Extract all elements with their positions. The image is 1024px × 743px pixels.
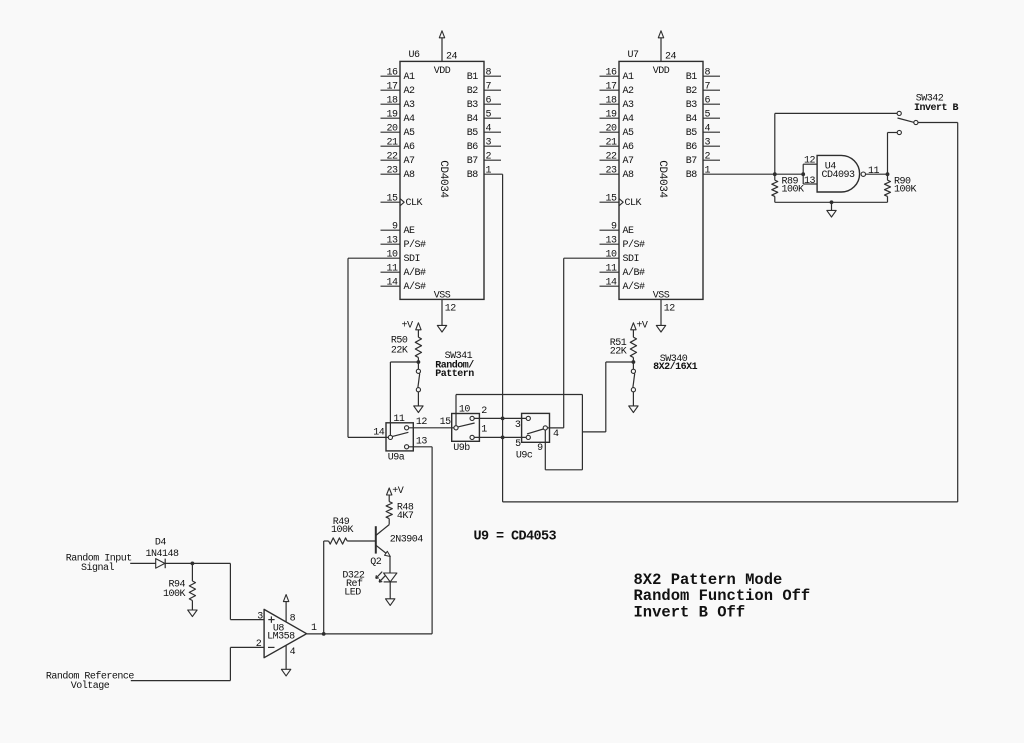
svg-text:B6: B6 <box>467 142 479 153</box>
svg-text:Invert B: Invert B <box>914 103 959 114</box>
U6 pin 4 B5 stub <box>484 131 501 133</box>
svg-text:2: 2 <box>256 639 262 650</box>
wire U9c pin4 up to U7 SDI <box>547 258 599 428</box>
svg-text:5: 5 <box>486 110 492 121</box>
resistor R48 4K7 <box>386 502 392 519</box>
svg-text:U9 = CD4053: U9 = CD4053 <box>474 530 557 545</box>
svg-text:B3: B3 <box>686 100 698 111</box>
U9b common contact pin15 <box>454 426 458 430</box>
svg-text:14: 14 <box>605 278 617 289</box>
svg-text:P/S#: P/S# <box>623 239 646 251</box>
svg-text:CD4034: CD4034 <box>437 160 449 198</box>
U6 pin 8 B1 stub <box>484 75 501 77</box>
resistor R94 100K <box>189 563 195 610</box>
wire U9a pin12 to U9b pin15 <box>409 427 454 429</box>
U6 pin 7 B2 stub <box>484 89 501 91</box>
svg-text:P/S#: P/S# <box>404 239 427 251</box>
U7 pin 16 A1 stub <box>600 75 620 77</box>
svg-text:SDI: SDI <box>623 254 640 265</box>
SW342 common contact <box>914 120 918 124</box>
U7 pin 21 A6 stub <box>600 145 620 147</box>
svg-text:B8: B8 <box>467 170 479 181</box>
wire random input to D4 <box>130 562 156 564</box>
wire U9a pin13 to opamp output riser <box>409 447 432 634</box>
svg-text:3: 3 <box>486 138 492 149</box>
U6 pin 17 A2 stub <box>381 89 401 91</box>
wire U6 SDI pin10 to U9a pin14 <box>348 258 388 437</box>
svg-text:A/S#: A/S# <box>404 281 427 293</box>
svg-text:Q2: Q2 <box>370 557 382 568</box>
svg-text:A1: A1 <box>404 72 416 83</box>
svg-text:4: 4 <box>705 124 711 135</box>
U8 pin 8 +V arrow <box>283 595 288 622</box>
U7 pin 20 A5 stub <box>600 131 620 133</box>
svg-text:B2: B2 <box>686 86 698 97</box>
U7 pin 2 B7 stub <box>703 159 720 161</box>
svg-text:24: 24 <box>446 52 458 63</box>
U7 pin 6 B3 stub <box>703 103 720 105</box>
svg-text:6: 6 <box>705 96 711 107</box>
U6 VSS pin 12 down arrow <box>437 299 446 332</box>
resistor R49 100K <box>324 538 348 544</box>
svg-text:Signal: Signal <box>81 562 115 574</box>
svg-text:10: 10 <box>605 250 617 261</box>
node junction D4 / R94 <box>191 562 195 566</box>
R51 labels <box>610 338 627 358</box>
+V arrow above R48 <box>387 488 392 502</box>
svg-text:B5: B5 <box>686 128 698 139</box>
U6 pin 10 SDI stub <box>381 257 401 259</box>
svg-text:2N3904: 2N3904 <box>390 535 424 546</box>
U8 output pin 1 wire <box>307 633 433 635</box>
svg-text:Random Function Off: Random Function Off <box>634 587 811 605</box>
svg-text:A8: A8 <box>623 170 635 181</box>
wire R49 to Q2 base <box>347 540 376 542</box>
U7 pin 10 SDI stub <box>600 257 620 259</box>
R50 labels <box>391 336 408 357</box>
svg-text:+V: +V <box>392 486 404 497</box>
wire SW340 to down arrow <box>632 392 634 406</box>
wire U4-input junction up to SW342 throw <box>775 113 897 174</box>
svg-text:23: 23 <box>605 166 617 177</box>
svg-text:14: 14 <box>386 278 398 289</box>
U7 CLK wedge <box>619 199 623 206</box>
svg-text:CLK: CLK <box>625 198 642 209</box>
wire SW342 common to right rail down to U9b net <box>503 123 958 502</box>
svg-text:20: 20 <box>386 124 398 135</box>
analog switch U9b body <box>452 414 480 442</box>
IC U6 CD4034 body <box>400 61 484 299</box>
U6 CLK wedge <box>400 199 404 206</box>
U7 VSS pin 12 down arrow <box>656 299 665 332</box>
svg-text:7: 7 <box>486 82 492 93</box>
svg-text:6: 6 <box>486 96 492 107</box>
U8 pin 4 down arrow <box>281 646 290 676</box>
svg-text:13: 13 <box>605 236 617 247</box>
U9a throw contact pin13 <box>405 445 409 449</box>
svg-text:13: 13 <box>804 176 816 187</box>
down arrow below SW341 <box>414 406 423 413</box>
svg-text:Voltage: Voltage <box>71 680 110 692</box>
U6 pin 2 B7 stub <box>484 159 501 161</box>
U9c throw contact pin5 <box>526 435 530 439</box>
svg-text:15: 15 <box>386 194 398 205</box>
U6 pin 3 B6 stub <box>484 145 501 147</box>
svg-text:A4: A4 <box>404 114 416 125</box>
svg-text:17: 17 <box>605 82 617 93</box>
svg-text:3: 3 <box>257 611 263 622</box>
svg-text:100K: 100K <box>782 185 805 196</box>
transistor Q2 2N3904 base bar <box>375 526 377 553</box>
svg-text:22K: 22K <box>391 345 408 356</box>
U7 pin 22 A7 stub <box>600 159 620 161</box>
svg-text:2: 2 <box>481 406 487 417</box>
U6 pin 9 AE stub <box>381 229 401 231</box>
svg-text:B5: B5 <box>467 128 479 139</box>
U7 pin 18 A3 stub <box>600 103 620 105</box>
IC U7 CD4034 body <box>619 61 703 299</box>
U9b throw contact pin1 <box>470 435 474 439</box>
analog switch U9c body <box>522 413 550 442</box>
U7 pin 17 A2 stub <box>600 89 620 91</box>
wire SW342 bottom throw to U4 output node <box>888 133 898 175</box>
svg-text:AE: AE <box>404 226 416 237</box>
svg-text:10: 10 <box>459 405 471 416</box>
U7 pin 5 B4 stub <box>703 117 720 119</box>
U6 pin 20 A5 stub <box>381 131 401 133</box>
svg-text:18: 18 <box>386 96 398 107</box>
svg-text:23: 23 <box>386 166 398 177</box>
SW340 top contact <box>631 369 635 373</box>
svg-text:B7: B7 <box>686 156 698 167</box>
op-amp - input marker <box>268 646 275 648</box>
svg-text:SDI: SDI <box>404 254 421 265</box>
U6 pin 22 A7 stub <box>381 159 401 161</box>
svg-text:A6: A6 <box>404 142 416 153</box>
R94 labels <box>163 579 186 599</box>
LED D322 <box>384 573 397 582</box>
svg-text:1: 1 <box>486 166 492 177</box>
svg-text:22: 22 <box>386 152 398 163</box>
wire R89/R90 ground rail <box>775 201 888 203</box>
svg-text:3: 3 <box>515 420 521 431</box>
wire random reference to opamp - input <box>131 647 264 680</box>
svg-text:9: 9 <box>392 222 398 233</box>
wire U7 B8 pin1 to U4 inputs <box>703 173 775 175</box>
svg-text:A8: A8 <box>404 170 416 181</box>
+V arrow above R51 <box>631 323 636 337</box>
svg-text:CD4093: CD4093 <box>821 170 855 181</box>
svg-text:10: 10 <box>386 250 398 261</box>
wire junction to U9a pin 11 <box>390 362 418 435</box>
U4 pin 13 stub <box>803 183 817 185</box>
svg-text:16: 16 <box>386 68 398 79</box>
U9b lever <box>458 423 475 427</box>
wire junction to U4 input tie <box>775 173 803 175</box>
U6 pin 23 A8 stub <box>381 173 401 175</box>
U6 pin 11 A/B# stub <box>381 271 401 273</box>
SW342 bottom throw contact <box>897 130 901 134</box>
svg-text:A/S#: A/S# <box>623 281 646 293</box>
svg-text:VDD: VDD <box>653 66 670 77</box>
svg-text:VDD: VDD <box>434 66 451 77</box>
wire U6 B8 pin1 down to U9b throws / SW342 return <box>484 174 503 502</box>
SW342 top throw contact <box>897 111 901 115</box>
wire top rail U9b pin10 to U9c pin9 loop <box>456 395 582 470</box>
wire SW341 to down arrow <box>417 392 419 406</box>
svg-text:U6: U6 <box>409 50 421 61</box>
wire D322 to ground <box>389 582 391 599</box>
node junction ground rail <box>830 200 834 204</box>
nand gate U4 CD4093 body <box>817 155 859 192</box>
resistor R50 22K <box>415 337 421 357</box>
R90 value labels <box>894 177 917 196</box>
+V arrow above R50 <box>416 323 421 337</box>
svg-text:8: 8 <box>705 68 711 79</box>
U9a common contact pin14 <box>388 435 392 439</box>
node junction B8 net / U9b pin1 <box>501 436 505 440</box>
analog switch U9a body <box>386 423 413 451</box>
U6 pin 19 A4 stub <box>381 117 401 119</box>
svg-text:A/B#: A/B# <box>623 267 646 279</box>
svg-text:4K7: 4K7 <box>397 511 414 522</box>
svg-text:16: 16 <box>605 68 617 79</box>
node junction R89/U7.B8 <box>773 172 777 176</box>
SW341 bottom contact <box>416 388 420 392</box>
svg-text:B7: B7 <box>467 156 479 167</box>
svg-text:A5: A5 <box>404 128 416 139</box>
svg-text:100K: 100K <box>163 589 186 600</box>
svg-text:Invert B Off: Invert B Off <box>634 604 746 622</box>
R89 value labels <box>782 177 805 196</box>
svg-text:A4: A4 <box>623 114 635 125</box>
wire Q2 emitter to D322 <box>389 556 391 573</box>
svg-text:B2: B2 <box>467 86 479 97</box>
svg-text:B4: B4 <box>686 114 698 125</box>
svg-text:12: 12 <box>664 304 676 315</box>
svg-text:12: 12 <box>804 155 816 166</box>
resistor R51 22K <box>630 337 636 357</box>
svg-text:8: 8 <box>290 613 296 624</box>
node junction U8 output / R49 <box>322 632 326 636</box>
svg-text:1: 1 <box>311 623 317 634</box>
svg-text:15: 15 <box>605 194 617 205</box>
SW342 lever <box>898 118 914 122</box>
U6 pin 13 P/S# stub <box>381 243 401 245</box>
U7 pin 13 P/S# stub <box>600 243 620 245</box>
U7 pin 19 A4 stub <box>600 117 620 119</box>
svg-text:21: 21 <box>386 138 398 149</box>
svg-text:A7: A7 <box>623 156 635 167</box>
node junction U4 output / R90 <box>886 172 890 176</box>
svg-text:B4: B4 <box>467 114 479 125</box>
svg-text:14: 14 <box>373 427 385 438</box>
SW341 lever <box>418 374 420 388</box>
SW340 lever <box>633 374 635 388</box>
svg-text:18: 18 <box>605 96 617 107</box>
wire junction left and down to U9b/U9c rail <box>582 362 633 432</box>
wire R50 to SW341 junction <box>417 358 419 370</box>
svg-text:A2: A2 <box>623 86 635 97</box>
svg-text:13: 13 <box>416 436 428 447</box>
U9c throw contact pin3 <box>526 416 530 420</box>
ground symbol under R94 <box>188 610 197 617</box>
U6 pin 21 A6 stub <box>381 145 401 147</box>
svg-text:24: 24 <box>665 52 677 63</box>
svg-text:B1: B1 <box>467 72 479 83</box>
svg-text:9: 9 <box>611 222 617 233</box>
svg-text:1N4148: 1N4148 <box>146 549 180 560</box>
svg-text:100K: 100K <box>894 185 917 196</box>
svg-text:A3: A3 <box>623 100 635 111</box>
svg-text:5: 5 <box>515 439 521 450</box>
svg-text:19: 19 <box>605 110 617 121</box>
U9c lever <box>527 429 543 434</box>
svg-text:7: 7 <box>705 82 711 93</box>
svg-text:12: 12 <box>416 417 428 428</box>
svg-text:19: 19 <box>386 110 398 121</box>
U7 pin 15 CLK stub <box>600 201 620 203</box>
U7 pin 14 A/S# stub <box>600 285 620 287</box>
svg-text:A2: A2 <box>404 86 416 97</box>
svg-text:22K: 22K <box>610 346 627 357</box>
svg-text:+V: +V <box>636 320 648 331</box>
U9c common contact pin4 <box>543 426 547 430</box>
SW341 top contact <box>416 369 420 373</box>
D322 labels <box>342 571 365 599</box>
svg-text:AE: AE <box>623 226 635 237</box>
svg-text:A1: A1 <box>623 72 635 83</box>
U6 pin 15 CLK stub <box>381 201 401 203</box>
U6 pin 14 A/S# stub <box>381 285 401 287</box>
U7 pin 4 B5 stub <box>703 131 720 133</box>
svg-text:D4: D4 <box>155 537 167 548</box>
U4 pin 12 stub <box>803 163 817 165</box>
op-amp U8 LM358 triangle <box>264 609 307 657</box>
svg-text:U9a: U9a <box>388 452 405 463</box>
U7 pin 11 A/B# stub <box>600 271 620 273</box>
svg-text:CD4034: CD4034 <box>656 160 668 198</box>
U7 pin 9 AE stub <box>600 229 620 231</box>
svg-text:A7: A7 <box>404 156 416 167</box>
U7 pin 7 B2 stub <box>703 89 720 91</box>
svg-text:2: 2 <box>705 152 711 163</box>
svg-text:13: 13 <box>386 236 398 247</box>
svg-text:1: 1 <box>481 424 487 435</box>
svg-text:20: 20 <box>605 124 617 135</box>
ground symbol under D322 <box>386 599 395 606</box>
ground symbol under U4 <box>827 202 836 217</box>
svg-text:B6: B6 <box>686 142 698 153</box>
U9a lever <box>393 432 409 436</box>
wire U9b pin2 to U9c pin3 <box>474 417 526 419</box>
wire U9b pin1 to U9c pin5 <box>474 436 526 438</box>
LED light arrows <box>376 572 386 583</box>
svg-text:4: 4 <box>553 429 559 440</box>
U9b throw contact pin2 <box>470 416 474 420</box>
svg-text:4: 4 <box>486 124 492 135</box>
svg-text:17: 17 <box>386 82 398 93</box>
U7 pin 8 B1 stub <box>703 75 720 77</box>
svg-text:B1: B1 <box>686 72 698 83</box>
svg-text:Pattern: Pattern <box>435 369 474 380</box>
U7 pin 23 A8 stub <box>600 173 620 175</box>
svg-text:VSS: VSS <box>434 290 451 301</box>
svg-text:11: 11 <box>868 166 880 177</box>
U6 VDD pin 24 +V arrow <box>439 31 444 62</box>
svg-text:9: 9 <box>537 443 543 454</box>
R48 labels <box>397 503 414 523</box>
svg-text:VSS: VSS <box>653 290 670 301</box>
op-amp + input marker <box>268 616 274 622</box>
svg-text:4: 4 <box>290 647 296 658</box>
U6 pin 18 A3 stub <box>381 103 401 105</box>
SW340 bottom contact <box>631 388 635 392</box>
node junction U4 input tie <box>801 172 805 176</box>
svg-text:11: 11 <box>393 414 405 425</box>
svg-text:3: 3 <box>705 138 711 149</box>
U7 VDD pin 24 +V arrow <box>658 31 663 62</box>
svg-text:15: 15 <box>440 417 452 428</box>
svg-text:1: 1 <box>705 166 711 177</box>
R49 labels <box>331 517 354 536</box>
U4 output inversion bubble <box>861 172 865 176</box>
resistor R89 100K <box>772 174 778 202</box>
svg-text:A5: A5 <box>623 128 635 139</box>
svg-text:U9b: U9b <box>453 442 470 454</box>
svg-text:LM358: LM358 <box>267 631 295 642</box>
svg-text:U9c: U9c <box>516 451 533 462</box>
down arrow below SW340 <box>629 406 638 413</box>
Q2 collector <box>376 519 389 536</box>
U6 pin 16 A1 stub <box>381 75 401 77</box>
svg-text:A3: A3 <box>404 100 416 111</box>
U7 pin 3 B6 stub <box>703 145 720 147</box>
svg-text:LED: LED <box>344 588 361 599</box>
wire output node up to R49 <box>323 541 325 634</box>
svg-text:U7: U7 <box>628 50 640 61</box>
wire D4 to opamp + input <box>165 563 264 619</box>
svg-text:+V: +V <box>401 320 413 331</box>
svg-text:8X2 Pattern Mode: 8X2 Pattern Mode <box>634 571 783 589</box>
svg-text:B3: B3 <box>467 100 479 111</box>
U4 pin 11 output wire <box>866 173 888 175</box>
wire R51 to SW340 junction <box>632 358 634 370</box>
Q2 emitter with arrow <box>376 545 391 556</box>
svg-text:A6: A6 <box>623 142 635 153</box>
svg-text:22: 22 <box>605 152 617 163</box>
svg-text:8: 8 <box>486 68 492 79</box>
svg-text:8X2/16X1: 8X2/16X1 <box>653 361 698 373</box>
svg-text:CLK: CLK <box>406 198 423 209</box>
U6 pin 5 B4 stub <box>484 117 501 119</box>
svg-text:2: 2 <box>486 152 492 163</box>
node junction B8 net / U9b pin2 <box>501 417 505 421</box>
svg-text:B8: B8 <box>686 170 698 181</box>
svg-text:11: 11 <box>386 264 398 275</box>
resistor R90 100K <box>885 174 891 202</box>
svg-text:A/B#: A/B# <box>404 267 427 279</box>
node junction R50 / U9a pin11 <box>417 360 421 364</box>
svg-text:100K: 100K <box>331 525 354 536</box>
svg-text:12: 12 <box>445 304 457 315</box>
wire U4 input tie vertical <box>802 164 804 184</box>
diode D4 1N4148 <box>156 559 166 569</box>
U9a throw contact pin12 <box>405 426 409 430</box>
node junction R51 / net to U9c pin9 rail <box>632 360 636 364</box>
svg-text:21: 21 <box>605 138 617 149</box>
svg-text:5: 5 <box>705 110 711 121</box>
